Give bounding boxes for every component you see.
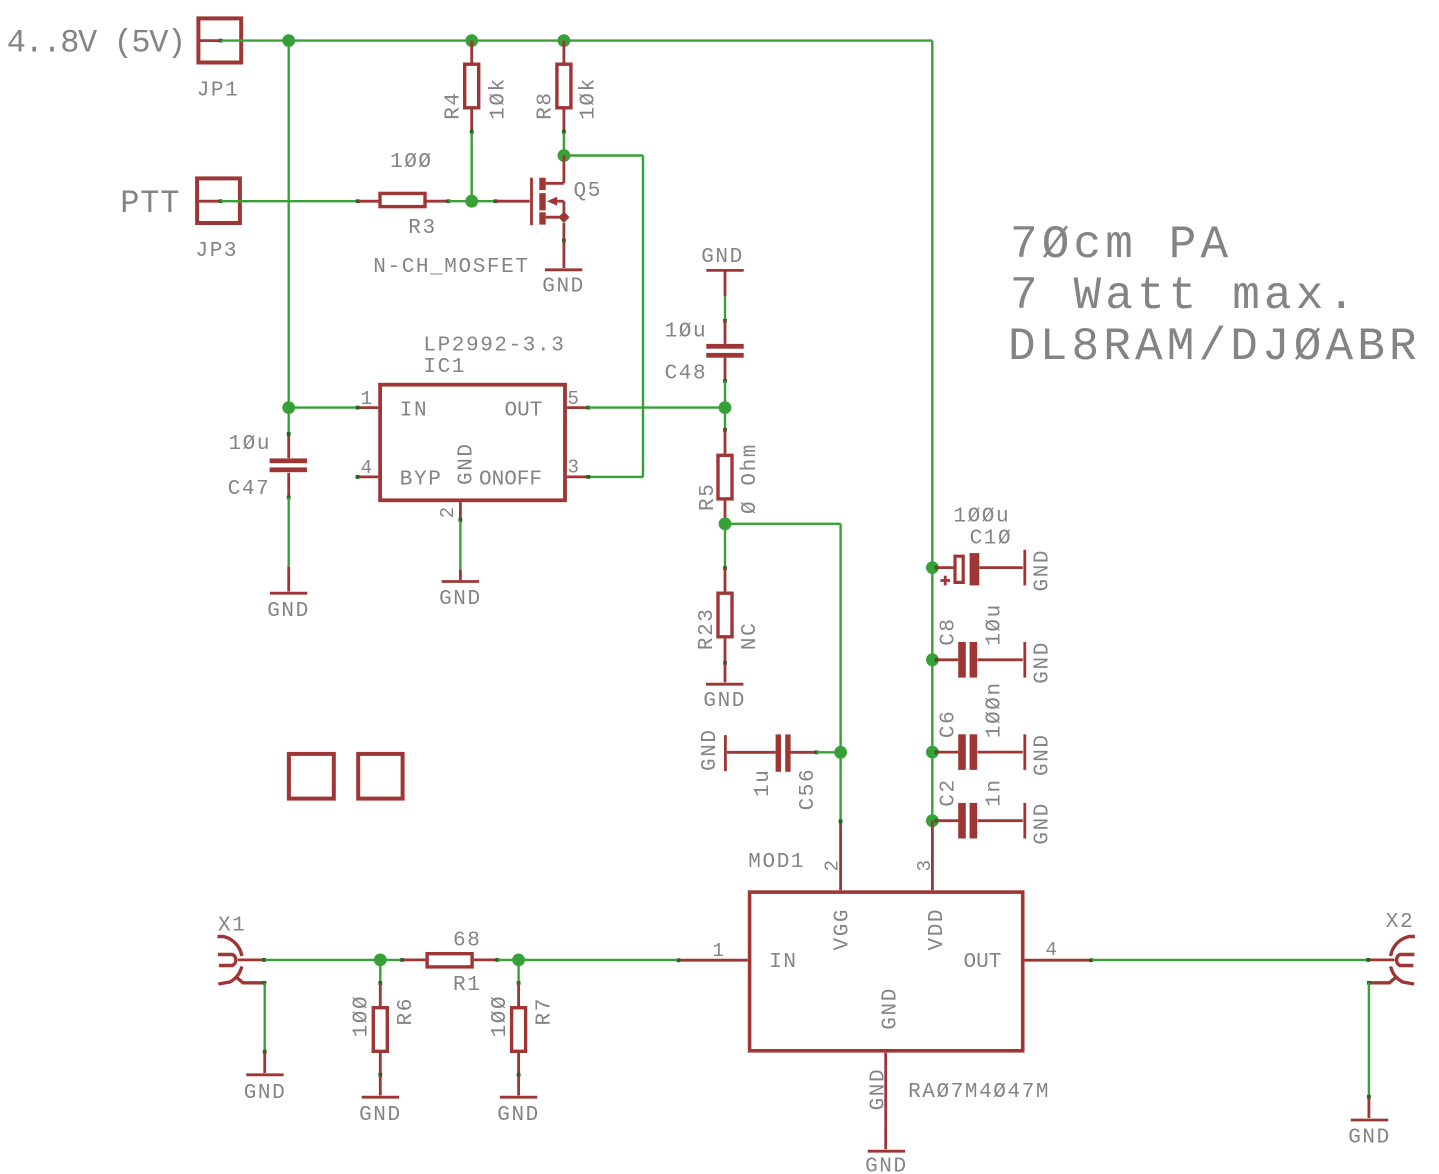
ground below X1 [244,1050,287,1105]
transistor Q5 N-CH MOSFET [373,156,602,279]
capacitor C56 [752,734,820,810]
junction VGG at C56 [834,746,847,759]
svg-text:R8: R8 [534,91,557,119]
svg-text:R23: R23 [696,607,719,650]
svg-text:GND: GND [699,728,722,771]
wire R1 to R7 junction [497,959,518,961]
svg-text:4: 4 [361,457,373,479]
svg-text:3: 3 [568,457,580,479]
capacitor C47 [228,432,307,501]
ground right of C8 [1025,641,1055,684]
ground right of C6 [1025,733,1055,776]
junction RF at R7 [512,954,525,967]
svg-text:X2: X2 [1386,911,1414,934]
svg-text:ONOFF: ONOFF [479,469,542,492]
resistor R6 [350,960,418,1077]
wire PTT to R3 [221,200,358,202]
ground below IC1 pin2 [439,570,482,611]
svg-text:1: 1 [361,388,373,410]
svg-text:N-CH_MOSFET: N-CH_MOSFET [373,256,529,279]
svg-text:R1: R1 [453,974,481,997]
resistor R23 [696,566,762,665]
pin end JP3 [219,199,223,203]
net label 4..8V (5V) [7,25,185,62]
wire IN junction to IC1 pin1 [289,406,356,408]
wire R3 to gate node [448,200,495,202]
net label PTT [120,185,180,222]
svg-text:JP1: JP1 [197,80,240,103]
capacitor C6 [935,681,1023,770]
svg-text:R3: R3 [408,217,436,240]
wire 5V rail down to VDD column [931,41,933,821]
svg-text:1Øk: 1Øk [577,77,600,120]
svg-text:GND: GND [456,442,479,485]
svg-text:NC: NC [739,622,762,650]
junction gate node / R4 [465,195,478,208]
svg-text:OUT: OUT [964,951,1002,974]
svg-text:1ØØ: 1ØØ [390,151,433,174]
svg-text:IC1: IC1 [423,356,466,379]
svg-text:RAØ7M4Ø47M: RAØ7M4Ø47M [908,1081,1050,1104]
op-amp/regulator IC1 LP2992-3.3 [356,334,591,522]
wire C56 to VGG line [816,751,840,753]
junction RF at R6 [374,954,387,967]
svg-text:1Øu: 1Øu [984,603,1007,646]
svg-text:1ØØn: 1ØØn [984,681,1007,738]
resistor R5 [697,428,762,524]
svg-text:GND: GND [439,588,482,611]
resistor R8 [534,41,600,134]
jumper pad square 2 [358,754,402,799]
resistor R3 [356,151,450,240]
svg-text:GND: GND [865,1156,908,1174]
svg-text:GND: GND [1032,802,1055,845]
ground right of C10 [1025,549,1055,592]
svg-text:1ØØ: 1ØØ [350,995,373,1038]
junction 5V rail / IC1 branch [282,34,295,47]
connector JP3 [196,178,240,263]
svg-text:JP3: JP3 [196,240,239,263]
svg-text:GND: GND [359,1104,402,1127]
wire ground to C48 [724,296,726,321]
svg-text:GND: GND [880,987,903,1030]
svg-text:GND: GND [497,1104,540,1127]
resistor R7 [489,960,556,1077]
pin end JP1 [219,39,223,43]
svg-text:X1: X1 [218,915,246,938]
svg-text:GND: GND [1032,733,1055,776]
wire RF junction to R1 [380,959,402,961]
wire R7 junction to MOD1 pin1 [519,959,678,961]
svg-text:7 Watt max.: 7 Watt max. [1010,270,1359,322]
wire drain node to ONOFF [564,156,643,477]
svg-text:2: 2 [822,859,844,871]
resistor R1 [400,930,499,998]
capacitor C2 [935,778,1023,838]
wire VGG node right and down [725,524,841,821]
capacitor C48 [665,319,744,386]
junction R5 bottom / VGG node [719,517,732,530]
ground below X2 [1348,1095,1391,1150]
svg-text:7Øcm PA: 7Øcm PA [1010,219,1232,271]
svg-text:1Øu: 1Øu [228,433,271,456]
svg-text:C56: C56 [797,768,820,811]
svg-text:4..8V (5V): 4..8V (5V) [7,25,185,62]
connector X2 [1366,911,1415,985]
svg-text:1u: 1u [752,769,775,797]
resistor R4 [442,41,510,134]
junction VDD at C6 [926,746,939,759]
module MOD1 RA07M4047M [677,851,1094,1123]
svg-text:GND: GND [868,1068,891,1111]
ground above C48 [701,246,744,296]
svg-text:DL8RAM/DJØABR: DL8RAM/DJØABR [1008,321,1421,373]
svg-text:1Øu: 1Øu [665,321,708,344]
wire X1 shield to ground [264,983,266,1053]
wire X2 shield to ground [1368,983,1370,1098]
svg-text:Q5: Q5 [574,180,602,203]
ground below C47 [267,567,310,624]
ground below R7 [497,1076,540,1127]
capacitor C10 polarized [935,506,1023,586]
svg-text:R7: R7 [533,997,556,1025]
svg-text:C6: C6 [937,710,960,738]
junction OUT node [719,401,732,414]
svg-text:R6: R6 [395,997,418,1025]
svg-text:C2: C2 [937,778,960,806]
svg-text:VDD: VDD [926,908,949,951]
svg-text:3: 3 [914,859,936,871]
svg-text:R5: R5 [697,483,720,511]
svg-text:IN: IN [400,400,428,423]
wire C47 to ground [288,498,290,567]
svg-text:GND: GND [542,275,585,298]
svg-text:C1Ø: C1Ø [970,528,1013,551]
jumper pad square 1 [289,754,334,799]
ground below MOD1 [865,1068,908,1174]
title text 70cm PA [1008,219,1421,373]
wire 5V top rail [221,39,933,41]
ground below R6 [359,1076,402,1127]
junction IN node at C47 [282,401,295,414]
connector JP1 [197,18,242,102]
svg-text:GND: GND [244,1082,287,1105]
wire IC1 pin2 to ground [459,521,461,570]
svg-text:OUT: OUT [505,400,543,423]
svg-text:MOD1: MOD1 [748,851,805,874]
svg-text:GND: GND [1032,641,1055,684]
svg-text:2: 2 [437,506,459,518]
svg-text:5: 5 [568,388,580,410]
svg-text:1: 1 [712,940,724,962]
svg-text:GND: GND [701,246,744,269]
connector X1 [218,915,267,985]
svg-text:68: 68 [453,930,481,953]
wire IC1 OUT to junction [588,406,725,408]
junction drain node [558,149,571,162]
svg-text:PTT: PTT [120,185,180,222]
capacitor C8 [935,603,1023,677]
wire OUT junction down to R5 [724,408,726,431]
ground below Q5 [542,241,585,299]
wire R4 to PTT row [471,133,473,201]
svg-text:Ø Ohm: Ø Ohm [739,443,762,514]
wire MOD1 pin2 stub [839,819,843,890]
ground left of C56 [699,728,775,771]
junction VDD at C2 [926,814,939,827]
ground below R23 [703,663,746,713]
ground right of C2 [1025,802,1055,845]
junction VDD at C8 [926,653,939,666]
svg-text:C8: C8 [937,617,960,645]
svg-text:VGG: VGG [832,908,855,951]
svg-text:GND: GND [1348,1127,1391,1150]
junction VDD at C10 [926,561,939,574]
wire R5 junction down to R23 [724,524,726,568]
svg-text:LP2992-3.3: LP2992-3.3 [423,334,565,357]
svg-text:IN: IN [769,951,797,974]
svg-text:C47: C47 [228,478,271,501]
svg-text:BYP: BYP [400,469,443,492]
svg-text:1n: 1n [984,778,1007,806]
wire 5V down to IC1 IN [288,41,290,436]
svg-text:4: 4 [1046,939,1058,961]
svg-text:C48: C48 [665,363,708,386]
svg-text:GND: GND [267,600,310,623]
svg-text:GND: GND [1032,549,1055,592]
wire X1 to RF junction [265,959,381,961]
wire MOD1 OUT to X2 [1092,959,1368,961]
wire C48 to OUT node [724,381,726,408]
wire R8 to drain node [563,133,565,156]
svg-text:1Øk: 1Øk [487,77,510,120]
svg-text:1ØØu: 1ØØu [953,506,1010,529]
svg-text:R4: R4 [442,91,465,119]
svg-text:GND: GND [703,690,746,713]
junction 5V rail / R4 [465,34,478,47]
svg-text:1ØØ: 1ØØ [489,995,512,1038]
wire MOD1 pin3 stub [931,821,934,891]
junction 5V rail / R8 [558,34,571,47]
